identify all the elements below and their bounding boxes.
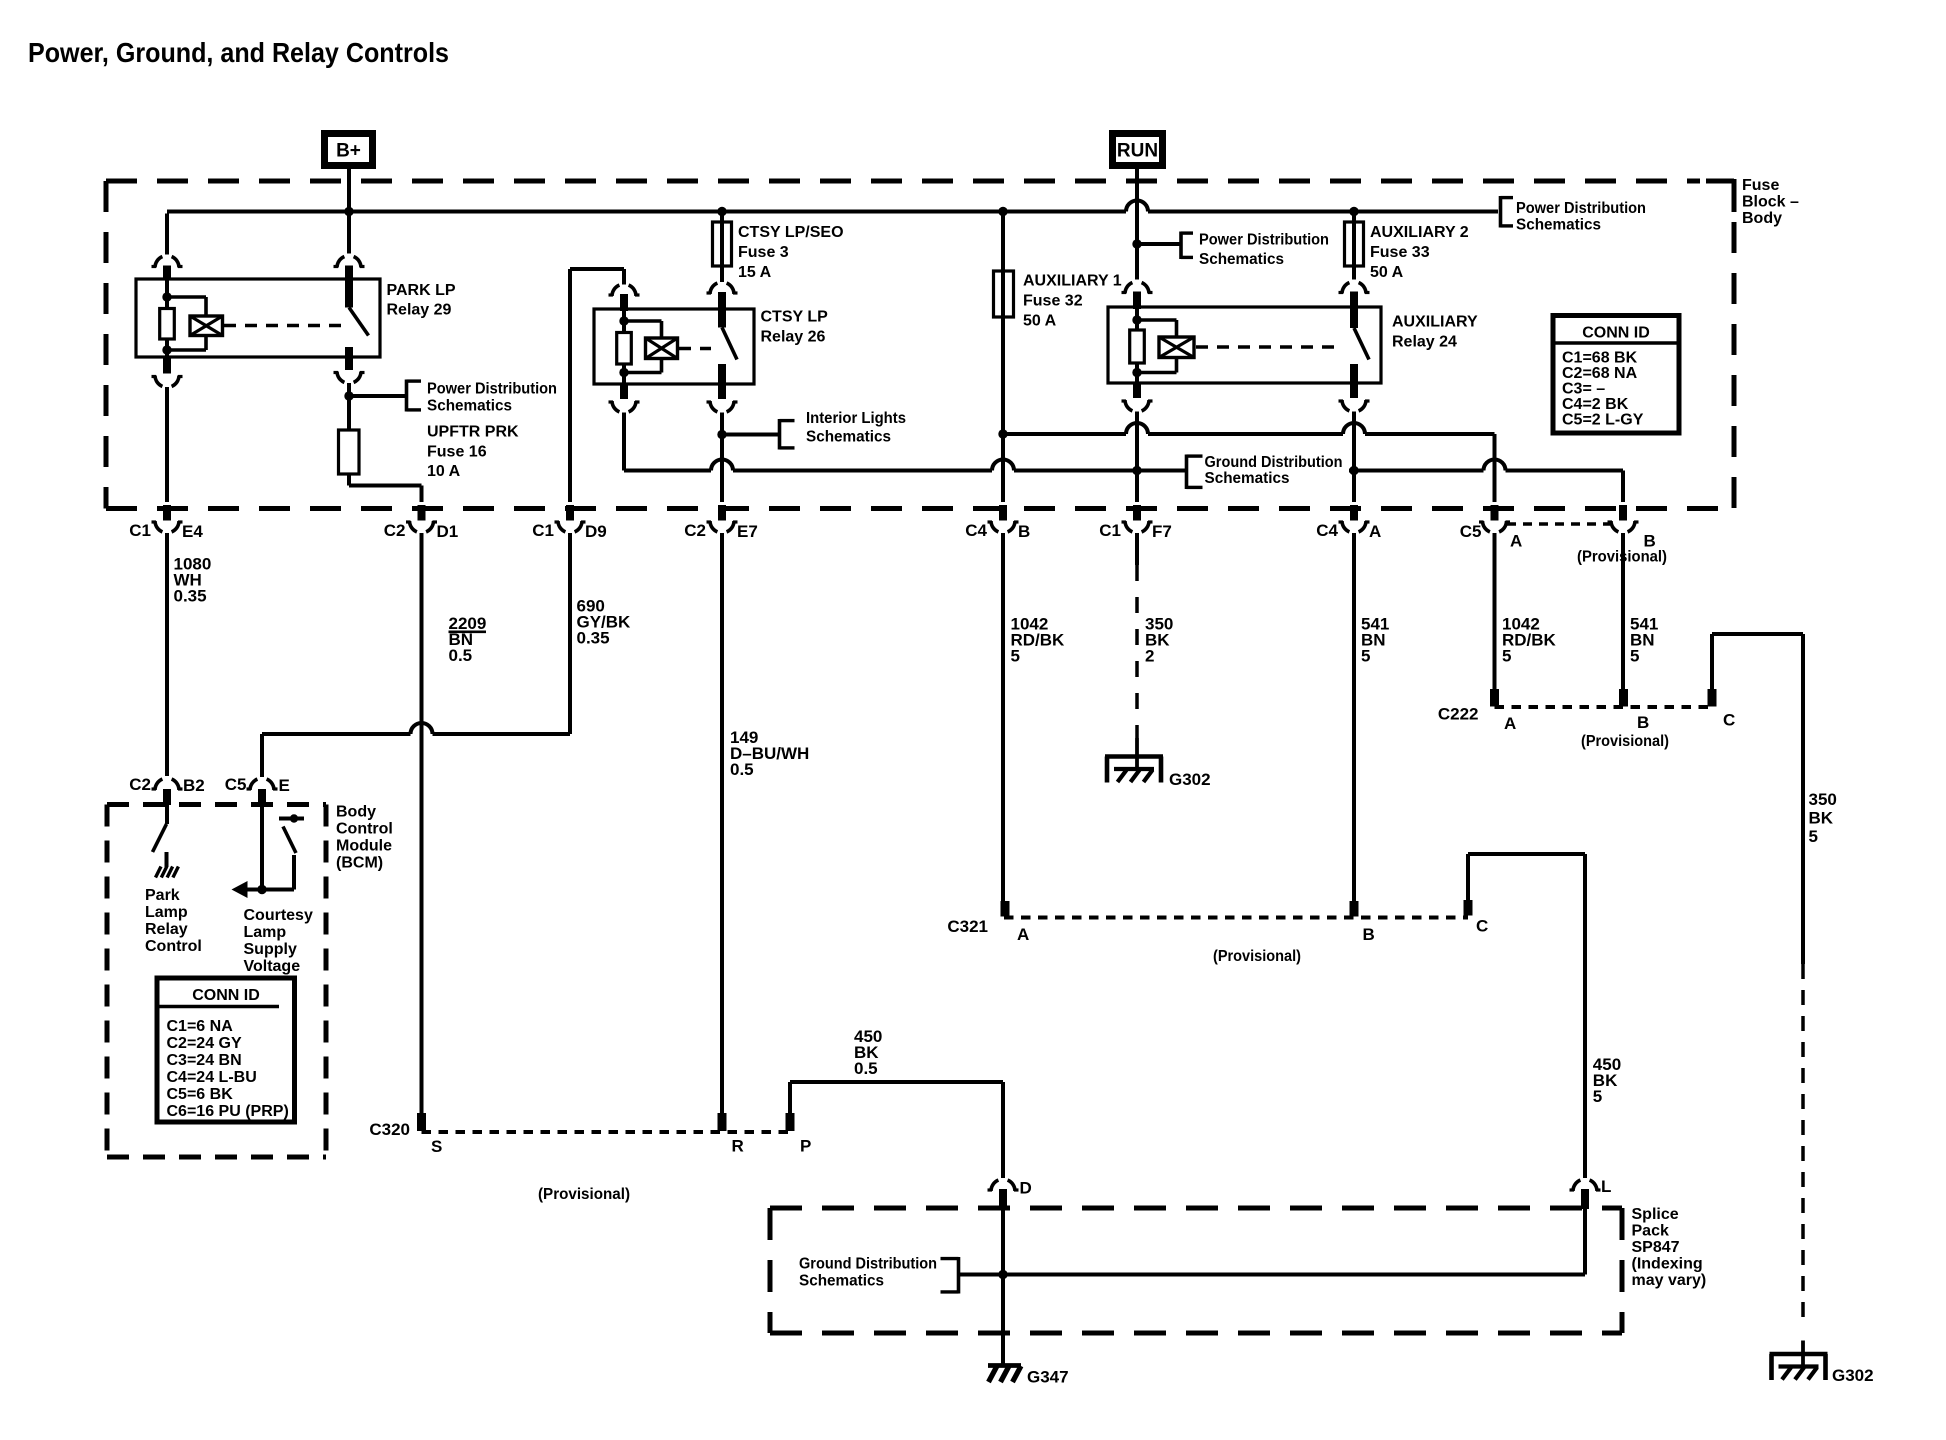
svg-text:Fuse 16: Fuse 16: [427, 444, 487, 461]
svg-text:2: 2: [1145, 647, 1154, 666]
svg-text:Pack: Pack: [1632, 1223, 1669, 1240]
svg-text:CONN ID: CONN ID: [1582, 325, 1650, 342]
svg-text:C2=24 GY: C2=24 GY: [167, 1035, 242, 1052]
svg-text:D1: D1: [437, 522, 459, 541]
svg-text:A: A: [1504, 714, 1516, 733]
svg-text:C2=68 NA: C2=68 NA: [1562, 365, 1638, 382]
svg-text:P: P: [800, 1137, 811, 1156]
svg-text:AUXILIARY: AUXILIARY: [1392, 314, 1478, 331]
svg-text:Interior Lights: Interior Lights: [806, 410, 906, 427]
svg-text:C222: C222: [1438, 705, 1479, 724]
svg-text:AUXILIARY 1: AUXILIARY 1: [1023, 273, 1122, 290]
svg-text:Fuse: Fuse: [1742, 177, 1779, 194]
svg-text:(Provisional): (Provisional): [538, 1186, 630, 1203]
svg-text:Control: Control: [336, 821, 393, 838]
svg-text:E4: E4: [182, 522, 203, 541]
svg-text:Power Distribution: Power Distribution: [1199, 232, 1329, 249]
svg-text:Power, Ground, and Relay Contr: Power, Ground, and Relay Controls: [28, 37, 449, 68]
svg-text:Schematics: Schematics: [427, 398, 512, 415]
svg-text:Schematics: Schematics: [1199, 251, 1284, 268]
svg-text:C320: C320: [369, 1120, 410, 1139]
svg-text:0.5: 0.5: [449, 646, 473, 665]
svg-text:C: C: [1723, 711, 1735, 730]
svg-text:C3=24 BN: C3=24 BN: [167, 1052, 242, 1069]
svg-text:C4: C4: [965, 521, 987, 540]
svg-text:C2: C2: [384, 521, 406, 540]
svg-text:Supply: Supply: [244, 941, 297, 958]
svg-text:C5: C5: [225, 775, 247, 794]
svg-text:Fuse 33: Fuse 33: [1370, 244, 1430, 261]
svg-text:(Provisional): (Provisional): [1581, 733, 1669, 750]
svg-text:Schematics: Schematics: [806, 429, 891, 446]
svg-text:E7: E7: [737, 522, 758, 541]
svg-text:Lamp: Lamp: [145, 904, 188, 921]
svg-text:B: B: [1637, 713, 1649, 732]
svg-text:Block –: Block –: [1742, 194, 1799, 211]
svg-text:C4=2 BK: C4=2 BK: [1562, 396, 1629, 413]
svg-text:G302: G302: [1169, 770, 1211, 789]
svg-text:CONN ID: CONN ID: [192, 987, 260, 1004]
svg-text:Ground Distribution: Ground Distribution: [799, 1256, 937, 1273]
svg-text:B: B: [1018, 522, 1030, 541]
svg-text:L: L: [1601, 1177, 1611, 1196]
svg-text:5: 5: [1809, 827, 1818, 846]
svg-text:Splice: Splice: [1632, 1206, 1679, 1223]
svg-text:Power Distribution: Power Distribution: [427, 381, 557, 398]
svg-text:Relay 26: Relay 26: [761, 329, 826, 346]
svg-text:S: S: [431, 1137, 442, 1156]
svg-text:C1: C1: [129, 521, 151, 540]
svg-text:CTSY LP: CTSY LP: [761, 309, 829, 326]
svg-text:Relay 29: Relay 29: [387, 302, 452, 319]
svg-text:D: D: [1020, 1179, 1032, 1198]
svg-text:B: B: [1363, 925, 1375, 944]
svg-text:Schematics: Schematics: [1516, 217, 1601, 234]
svg-text:Relay: Relay: [145, 921, 188, 938]
svg-text:A: A: [1017, 925, 1029, 944]
svg-text:R: R: [732, 1137, 744, 1156]
svg-text:E: E: [279, 776, 290, 795]
svg-text:C1: C1: [532, 521, 554, 540]
svg-text:B2: B2: [183, 776, 205, 795]
svg-text:C5=2 L-GY: C5=2 L-GY: [1562, 412, 1644, 429]
svg-text:Control: Control: [145, 938, 202, 955]
svg-text:5: 5: [1361, 647, 1370, 666]
svg-text:Voltage: Voltage: [244, 958, 301, 975]
svg-text:Relay 24: Relay 24: [1392, 334, 1457, 351]
svg-text:C1: C1: [1099, 521, 1121, 540]
svg-text:Schematics: Schematics: [1205, 470, 1290, 487]
svg-text:0.35: 0.35: [174, 587, 207, 606]
svg-text:0.35: 0.35: [577, 629, 610, 648]
svg-text:D9: D9: [585, 522, 607, 541]
svg-text:Power Distribution: Power Distribution: [1516, 200, 1646, 217]
svg-text:UPFTR PRK: UPFTR PRK: [427, 424, 519, 441]
svg-text:F7: F7: [1152, 522, 1172, 541]
svg-text:C4: C4: [1316, 521, 1338, 540]
svg-text:0.5: 0.5: [854, 1059, 878, 1078]
svg-text:Courtesy: Courtesy: [244, 907, 313, 924]
svg-text:50 A: 50 A: [1023, 313, 1057, 330]
svg-text:C1=6 NA: C1=6 NA: [167, 1018, 234, 1035]
svg-text:Fuse 32: Fuse 32: [1023, 293, 1083, 310]
svg-text:Body: Body: [1742, 210, 1782, 227]
svg-text:C2: C2: [684, 521, 706, 540]
svg-text:Ground Distribution: Ground Distribution: [1205, 454, 1343, 471]
svg-text:C321: C321: [947, 917, 988, 936]
svg-text:C6=16 PU (PRP): C6=16 PU (PRP): [167, 1103, 289, 1120]
svg-text:AUXILIARY 2: AUXILIARY 2: [1370, 224, 1469, 241]
svg-text:15 A: 15 A: [738, 264, 772, 281]
svg-text:Fuse 3: Fuse 3: [738, 244, 789, 261]
svg-text:5: 5: [1011, 647, 1020, 666]
svg-text:Lamp: Lamp: [244, 924, 287, 941]
svg-text:BK: BK: [1809, 809, 1834, 828]
svg-text:10 A: 10 A: [427, 463, 461, 480]
svg-text:(Provisional): (Provisional): [1577, 549, 1667, 566]
svg-text:50 A: 50 A: [1370, 264, 1404, 281]
svg-text:Body: Body: [336, 804, 376, 821]
svg-text:350: 350: [1809, 790, 1837, 809]
svg-text:G347: G347: [1027, 1368, 1069, 1387]
svg-text:C3= –: C3= –: [1562, 381, 1605, 398]
svg-text:Schematics: Schematics: [799, 1273, 884, 1290]
svg-text:CTSY LP/SEO: CTSY LP/SEO: [738, 224, 844, 241]
svg-text:may vary): may vary): [1632, 1272, 1707, 1289]
svg-text:C4=24 L-BU: C4=24 L-BU: [167, 1069, 257, 1086]
svg-text:A: A: [1510, 532, 1522, 551]
svg-text:0.5: 0.5: [730, 760, 754, 779]
svg-text:C5: C5: [1460, 522, 1482, 541]
svg-text:B+: B+: [336, 141, 361, 162]
svg-text:G302: G302: [1832, 1366, 1874, 1385]
svg-text:SP847: SP847: [1632, 1239, 1680, 1256]
svg-text:(BCM): (BCM): [336, 855, 383, 872]
svg-text:RUN: RUN: [1117, 141, 1158, 162]
svg-text:5: 5: [1502, 647, 1511, 666]
svg-text:Module: Module: [336, 838, 392, 855]
svg-text:(Indexing: (Indexing: [1632, 1256, 1703, 1273]
svg-text:C: C: [1476, 917, 1488, 936]
svg-text:PARK LP: PARK LP: [387, 282, 456, 299]
svg-text:A: A: [1369, 522, 1381, 541]
svg-text:5: 5: [1593, 1087, 1602, 1106]
svg-text:5: 5: [1630, 647, 1639, 666]
svg-text:C5=6 BK: C5=6 BK: [167, 1086, 234, 1103]
svg-text:(Provisional): (Provisional): [1213, 948, 1301, 965]
svg-text:Park: Park: [145, 887, 180, 904]
svg-text:C1=68 BK: C1=68 BK: [1562, 350, 1638, 367]
svg-text:C2: C2: [129, 775, 151, 794]
